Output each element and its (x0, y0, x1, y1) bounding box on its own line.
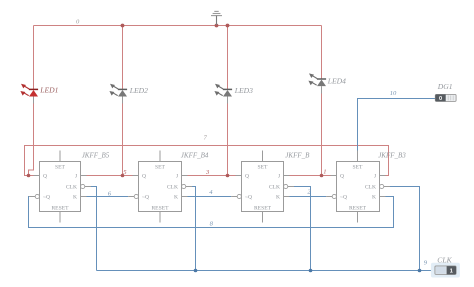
junction rail / ground (215, 24, 219, 28)
wire LED1 column (29, 26, 34, 176)
junction net 1 / LED4 (320, 174, 324, 178)
svg-text:CLK: CLK (167, 185, 178, 191)
svg-text:CLK: CLK (437, 255, 452, 264)
svg-text:5: 5 (123, 169, 127, 176)
svg-text:Q: Q (43, 174, 47, 180)
wire FF1 CLK drop (91, 187, 97, 271)
wire FF4 CLK drop (390, 187, 420, 271)
svg-text:Q: Q (245, 174, 249, 180)
LED LED1 (20, 84, 38, 97)
svg-text:9: 9 (424, 260, 428, 267)
svg-text:LED4: LED4 (327, 76, 346, 85)
svg-text:SET: SET (55, 164, 66, 170)
flip-flop JKFF_B (231, 151, 294, 223)
svg-text:Q: Q (142, 174, 146, 180)
svg-text:JKFF_B: JKFF_B (285, 151, 310, 159)
junction node 7 at FF1 Q (27, 174, 31, 178)
junction net 3 / LED3 (226, 174, 230, 178)
svg-text:SET: SET (258, 164, 269, 170)
svg-text:K: K (73, 195, 77, 201)
wire LED2 column (122, 26, 124, 176)
svg-text:0: 0 (439, 96, 442, 102)
svg-text:K: K (372, 195, 376, 201)
svg-text:4: 4 (209, 189, 213, 196)
svg-text:CLK: CLK (269, 185, 280, 191)
wire net 5 (FF1 J - FF2 Q) (87, 175, 133, 177)
svg-text:JKFF_B5: JKFF_B5 (82, 151, 110, 159)
svg-text:10: 10 (390, 90, 397, 97)
svg-text:DG1: DG1 (437, 82, 453, 91)
svg-text:JKFF_B4: JKFF_B4 (181, 151, 209, 159)
svg-text:CLK: CLK (365, 185, 376, 191)
flip-flop JKFF_B5 (29, 151, 91, 223)
LED LED2 (109, 84, 127, 97)
wire net 10 (DG1 - FF4 SET) (358, 99, 436, 151)
svg-text:RESET: RESET (51, 206, 69, 212)
svg-text:RESET: RESET (151, 206, 169, 212)
indicator DG1 (435, 94, 456, 102)
svg-text:RESET: RESET (349, 206, 367, 212)
junction net 9 / FF4 CLK (418, 269, 422, 273)
clock source CLK (431, 263, 460, 278)
svg-text:SET: SET (353, 164, 364, 170)
wire net 9 (clock line) (97, 270, 436, 272)
svg-text:RESET: RESET (254, 206, 272, 212)
svg-text:JKFF_B3: JKFF_B3 (378, 151, 406, 159)
junction net 5 / LED2 (121, 174, 125, 178)
flip-flop JKFF_B3 (326, 151, 390, 223)
svg-text:SET: SET (155, 164, 166, 170)
svg-text:7: 7 (204, 135, 208, 142)
junction net 9 / FF2 CLK (194, 269, 198, 273)
svg-text:Q: Q (340, 174, 344, 180)
LED LED3 (214, 84, 232, 97)
svg-text:K: K (276, 195, 280, 201)
wire net 7 feedback (FF1 Q to FF4 J) (25, 146, 389, 176)
ground symbol (211, 11, 222, 25)
wire net 3 (FF2 J - FF3 Q) (188, 175, 236, 177)
junction net 9 / FF3 CLK (309, 269, 313, 273)
wire LED4 column (321, 26, 323, 176)
svg-text:LED1: LED1 (39, 86, 58, 95)
wire net 2 FF3 CLK drop (294, 187, 311, 271)
junction rail / LED3 (226, 24, 230, 28)
svg-text:LED3: LED3 (234, 86, 253, 95)
svg-text:~Q: ~Q (340, 195, 347, 201)
svg-text:3: 3 (205, 169, 210, 176)
svg-text:~Q: ~Q (142, 195, 149, 201)
LED LED4 (308, 73, 326, 86)
wire net 0 (top rail) (34, 25, 322, 27)
svg-text:K: K (174, 195, 178, 201)
svg-text:CLK: CLK (66, 185, 77, 191)
wire net 8 (FF1 ~Q - FF4 K) (29, 197, 394, 228)
wire LED3 column (227, 26, 229, 176)
wire FF2 CLK drop (192, 187, 196, 271)
wire net 4 (FF2 K - FF3 ~Q) (188, 196, 232, 198)
wire FF3 K - FF4 ~Q (290, 196, 327, 198)
junction rail / LED2 (121, 24, 125, 28)
flip-flop JKFF_B4 (128, 151, 192, 223)
svg-text:~Q: ~Q (245, 195, 252, 201)
svg-text:LED2: LED2 (129, 86, 148, 95)
svg-text:0: 0 (76, 18, 80, 25)
svg-text:8: 8 (210, 221, 214, 228)
wire net 6 (FF1 K - FF2 ~Q) (87, 196, 129, 198)
svg-text:1: 1 (323, 169, 326, 176)
svg-text:~Q: ~Q (43, 195, 50, 201)
wire net 1 (FF3 J - FF4 Q) (290, 175, 331, 177)
